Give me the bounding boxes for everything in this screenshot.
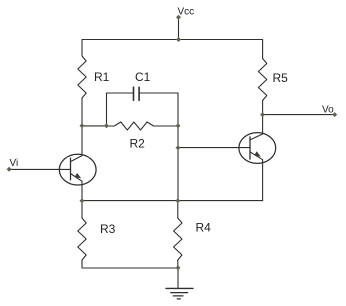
wire R3 bottom [81, 260, 83, 268]
wire C1 top right [139, 92, 178, 94]
svg-text:Vcc: Vcc [178, 7, 195, 18]
junction Q1 emitter node [80, 198, 85, 203]
junction C1/R2 right [176, 123, 181, 128]
svg-text:R4: R4 [196, 221, 212, 235]
wire top rail [82, 40, 263, 59]
wire C1 left riser [106, 93, 108, 126]
svg-text:C1: C1 [135, 70, 151, 84]
wire Q1 emitter [81, 181, 83, 200]
capacitor C1 [134, 87, 140, 100]
wire Q2 emitter [262, 160, 264, 201]
svg-text:Vi: Vi [10, 158, 19, 169]
wire R5 bottom [262, 101, 264, 115]
transistor Q1 [59, 154, 96, 185]
transistor Q2 [239, 133, 276, 164]
resistor R4 [174, 218, 182, 260]
junction Vi terminal [7, 167, 12, 172]
junction C1/R2 left [104, 123, 109, 128]
junction center emitter/R4 [175, 198, 180, 203]
junction Vcc top rail [176, 37, 181, 42]
wire right branch rail [177, 93, 179, 201]
junction R4/ground [176, 265, 181, 270]
wire C1 top left [107, 92, 134, 94]
svg-text:R5: R5 [273, 71, 289, 85]
svg-text:R3: R3 [100, 222, 116, 236]
junction Vcc terminal [176, 15, 181, 20]
junction Vo terminal [332, 112, 337, 117]
wire Vcc stem [178, 17, 180, 39]
resistor R1 [78, 56, 86, 98]
wire Q2 collector [262, 115, 264, 134]
wire R1 bottom to collector [81, 98, 83, 156]
ground [166, 268, 193, 299]
wire base Q2 [178, 147, 250, 149]
resistor R5 [258, 59, 266, 101]
junction R5/collector/Vo [260, 112, 265, 117]
wire Vi input [9, 168, 70, 170]
resistor R2 [107, 122, 179, 130]
wire R4 bottom [177, 260, 179, 268]
svg-text:R1: R1 [94, 70, 110, 84]
wire node A to C1/R2 branch [82, 125, 107, 127]
wire emitter bus [82, 200, 263, 202]
junction Q2 base node [176, 145, 181, 150]
wire R3 top [81, 201, 83, 218]
svg-text:R2: R2 [130, 136, 146, 150]
wire R4 top [177, 201, 179, 218]
junction node A [80, 123, 85, 128]
wire bottom bus [82, 267, 178, 269]
wire Vo output [263, 114, 335, 116]
svg-text:Vo: Vo [322, 105, 334, 116]
resistor R3 [78, 218, 86, 260]
